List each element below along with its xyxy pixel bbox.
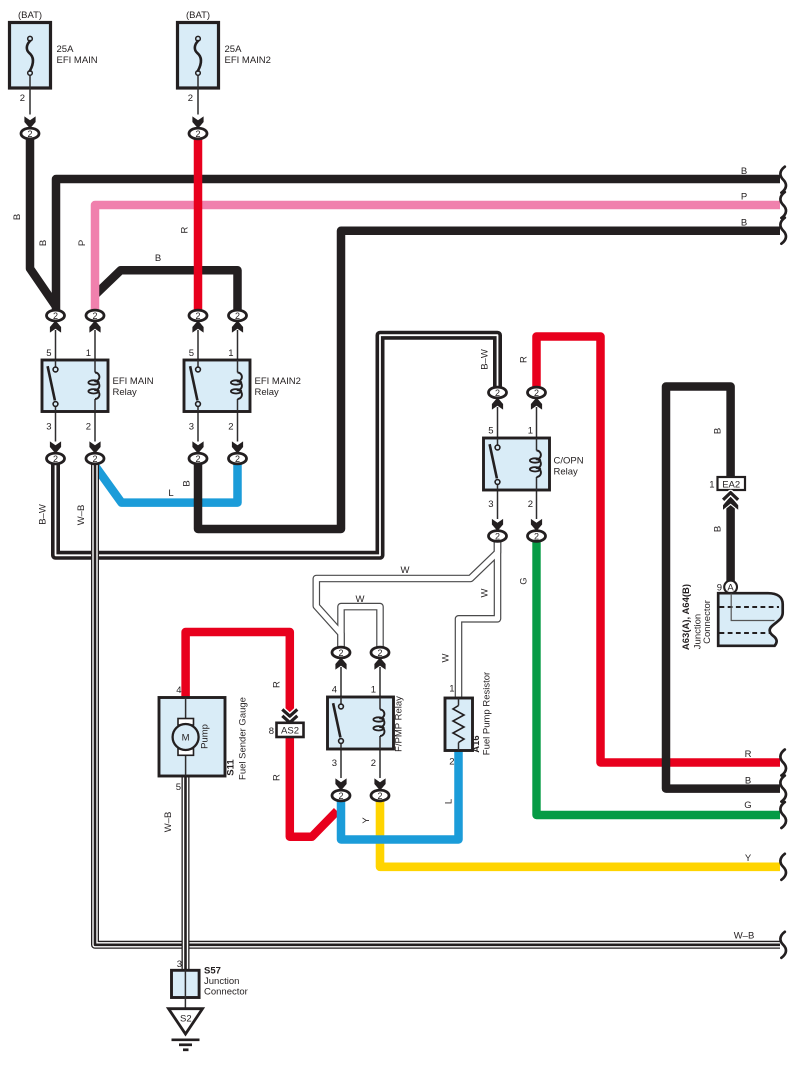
svg-text:L: L	[444, 799, 455, 804]
svg-text:Fuel Pump Resistor: Fuel Pump Resistor	[482, 672, 493, 755]
svg-text:3: 3	[488, 499, 493, 510]
svg-text:B: B	[713, 526, 724, 532]
svg-text:25A: 25A	[225, 44, 243, 55]
svg-text:L: L	[168, 488, 173, 499]
svg-text:(BAT): (BAT)	[18, 10, 42, 21]
svg-text:2: 2	[338, 648, 343, 658]
svg-text:Junction: Junction	[204, 976, 239, 987]
svg-text:B: B	[713, 428, 724, 434]
svg-text:2: 2	[371, 758, 376, 769]
svg-text:B: B	[182, 480, 193, 486]
svg-text:C/OPN: C/OPN	[554, 456, 584, 467]
svg-text:5: 5	[189, 348, 194, 359]
svg-text:2: 2	[377, 648, 382, 658]
svg-text:2: 2	[495, 531, 500, 541]
svg-text:S11: S11	[226, 759, 237, 776]
svg-text:P: P	[77, 240, 88, 246]
svg-text:W: W	[441, 653, 452, 662]
svg-text:2: 2	[86, 422, 91, 433]
svg-text:2: 2	[195, 454, 200, 464]
svg-text:2: 2	[92, 311, 97, 321]
svg-text:3: 3	[177, 959, 182, 970]
svg-text:Connector: Connector	[204, 987, 248, 998]
svg-text:A: A	[727, 582, 734, 593]
svg-text:3: 3	[46, 422, 51, 433]
svg-text:2: 2	[27, 129, 32, 139]
svg-text:Relay: Relay	[255, 387, 280, 398]
svg-text:2: 2	[534, 388, 539, 398]
svg-text:G: G	[744, 800, 751, 811]
svg-text:M: M	[182, 733, 190, 744]
svg-text:4: 4	[176, 685, 181, 696]
svg-text:Relay: Relay	[113, 387, 138, 398]
svg-text:2: 2	[92, 454, 97, 464]
svg-text:B–W: B–W	[38, 504, 49, 525]
svg-text:W–B: W–B	[163, 812, 174, 833]
svg-text:R: R	[745, 749, 752, 760]
svg-text:EFI MAIN2: EFI MAIN2	[255, 376, 301, 387]
svg-text:1: 1	[86, 348, 91, 359]
svg-text:W–B: W–B	[76, 505, 87, 526]
svg-text:2: 2	[53, 311, 58, 321]
svg-text:R: R	[272, 774, 283, 781]
svg-text:9: 9	[717, 583, 722, 594]
svg-text:1: 1	[528, 426, 533, 437]
svg-text:G: G	[519, 577, 530, 584]
svg-text:2: 2	[195, 129, 200, 139]
svg-text:B: B	[12, 214, 23, 220]
svg-text:F/PMP Relay: F/PMP Relay	[394, 696, 405, 752]
svg-text:5: 5	[46, 348, 51, 359]
svg-text:2: 2	[235, 311, 240, 321]
svg-text:2: 2	[338, 791, 343, 801]
svg-text:1: 1	[228, 348, 233, 359]
svg-text:W: W	[480, 588, 491, 597]
svg-text:3: 3	[332, 758, 337, 769]
svg-text:W: W	[356, 594, 365, 605]
svg-text:EA2: EA2	[722, 479, 740, 490]
svg-text:2: 2	[377, 791, 382, 801]
svg-text:25A: 25A	[57, 44, 75, 55]
svg-text:2: 2	[53, 454, 58, 464]
svg-text:EFI MAIN: EFI MAIN	[113, 376, 154, 387]
svg-text:1: 1	[709, 480, 714, 491]
svg-text:2: 2	[528, 499, 533, 510]
svg-text:Fuel Sender Gauge: Fuel Sender Gauge	[238, 697, 249, 780]
svg-text:5: 5	[176, 782, 181, 793]
svg-text:B: B	[741, 166, 747, 177]
svg-text:2: 2	[20, 93, 25, 104]
svg-text:Connector: Connector	[702, 600, 713, 644]
svg-text:EFI MAIN: EFI MAIN	[57, 55, 98, 66]
svg-text:B: B	[38, 240, 49, 246]
svg-text:EFI MAIN2: EFI MAIN2	[225, 55, 271, 66]
svg-text:5: 5	[488, 426, 493, 437]
svg-text:R: R	[272, 681, 283, 688]
svg-text:2: 2	[235, 454, 240, 464]
svg-text:2: 2	[195, 311, 200, 321]
svg-text:B: B	[745, 776, 751, 787]
svg-text:R: R	[180, 226, 191, 233]
svg-text:2: 2	[495, 388, 500, 398]
svg-text:A63(A), A64(B): A63(A), A64(B)	[681, 584, 692, 650]
svg-text:Y: Y	[361, 817, 372, 824]
svg-text:S2: S2	[180, 1013, 192, 1024]
svg-text:W: W	[401, 565, 410, 576]
svg-text:Relay: Relay	[554, 467, 579, 478]
svg-text:2: 2	[228, 422, 233, 433]
svg-text:2: 2	[534, 531, 539, 541]
svg-text:S57: S57	[204, 966, 221, 977]
svg-text:8: 8	[269, 726, 274, 737]
svg-text:AS2: AS2	[281, 725, 299, 736]
svg-text:B: B	[741, 218, 747, 229]
svg-text:2: 2	[449, 757, 454, 768]
svg-text:Y: Y	[745, 853, 752, 864]
svg-text:P: P	[741, 192, 747, 203]
svg-text:4: 4	[332, 685, 337, 696]
svg-text:W–B: W–B	[734, 931, 755, 942]
svg-text:Pump: Pump	[200, 724, 211, 749]
svg-text:B: B	[155, 253, 161, 264]
svg-text:(BAT): (BAT)	[186, 10, 210, 21]
svg-text:1: 1	[449, 684, 454, 695]
svg-text:3: 3	[189, 422, 194, 433]
svg-text:R: R	[519, 356, 530, 363]
svg-text:2: 2	[188, 93, 193, 104]
svg-text:1: 1	[371, 685, 376, 696]
svg-text:B–W: B–W	[480, 349, 491, 370]
svg-text:A16: A16	[471, 735, 482, 752]
